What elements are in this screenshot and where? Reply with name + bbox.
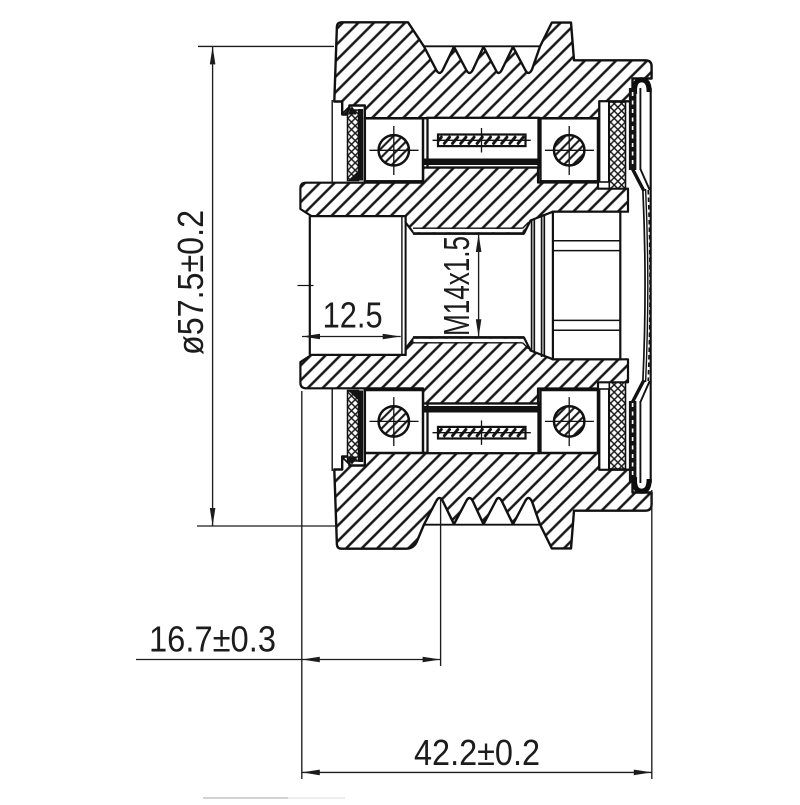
svg-text:16.7±0.3: 16.7±0.3 <box>149 619 276 660</box>
thread chamfer slant top-right <box>523 222 529 228</box>
svg-text:12.5: 12.5 <box>323 295 383 336</box>
svg-text:42.2±0.2: 42.2±0.2 <box>414 732 540 773</box>
pulley OD silhouette line across top grooves <box>423 45 541 47</box>
pulley left face edge line upper <box>331 100 333 184</box>
centre tick on hub left face <box>298 285 314 287</box>
watermark remnant line <box>203 797 288 799</box>
dust cap face <box>643 188 645 383</box>
hub lower section <box>300 338 628 404</box>
lower-left seal <box>343 391 363 465</box>
lower-right spacer ring <box>600 389 609 470</box>
lower sprag horizontal centerline <box>433 432 531 434</box>
hub upper section <box>300 168 628 234</box>
bearing ball upper-left <box>379 135 409 165</box>
pulley left face edge line lower <box>331 388 333 472</box>
hub nose end <box>553 212 620 360</box>
lower sprag vertical centerline <box>481 420 483 445</box>
upper-left seal <box>343 106 363 180</box>
pulley body upper section <box>334 22 651 118</box>
dust cap bottom curl <box>634 477 649 491</box>
dimension 16.7±0.3 <box>136 391 441 779</box>
counterbore step face second line <box>401 216 403 356</box>
retainer ring line 2 <box>533 219 535 352</box>
pulley OD silhouette line across bottom grooves <box>423 524 541 526</box>
upper clutch inner race band <box>423 159 540 166</box>
upper-right spacer ring <box>600 102 609 183</box>
dimension M14x1.5 <box>478 234 480 337</box>
lower sprag bar <box>438 427 526 439</box>
svg-text:ø57.5±0.2: ø57.5±0.2 <box>170 210 211 355</box>
thread relief band bottom <box>414 339 523 342</box>
nose chamfer line 2 <box>553 250 620 252</box>
bearing ball square lower-right <box>540 390 598 453</box>
upper sprag horizontal centerline <box>433 139 531 141</box>
dust cap top crimp <box>629 88 637 170</box>
lower clutch inner race band <box>423 406 540 413</box>
nose chamfer line 1 <box>553 240 620 242</box>
dimension ø57.5±0.2 <box>197 46 336 526</box>
bearing ball upper-right <box>554 135 584 165</box>
dimension 42.2±0.2 <box>302 490 652 779</box>
thread minor diameter line bottom <box>413 336 524 339</box>
bearing ball square upper-right <box>540 118 598 181</box>
thread major diameter line bottom <box>413 342 523 344</box>
thread relief band top <box>414 229 523 232</box>
lower-right seal <box>609 383 625 470</box>
thread minor diameter line top <box>413 232 524 235</box>
bearing ball lower-left <box>379 406 409 436</box>
dimension 12.5 <box>302 336 401 338</box>
upper sprag vertical centerline <box>481 128 483 153</box>
dust cap top cone <box>633 169 645 191</box>
svg-text:M14x1.5: M14x1.5 <box>436 236 477 336</box>
dust cap bottom crimp <box>629 401 637 483</box>
lower sprag clutch cavity <box>428 404 539 454</box>
thread major diameter line top <box>413 227 523 229</box>
dust cap bottom cone <box>633 380 645 402</box>
thread chamfer slant bottom-right <box>523 343 529 349</box>
nose chamfer line 4 <box>553 329 620 331</box>
upper-right seal <box>609 102 625 189</box>
dust cap outer silhouette <box>650 88 652 483</box>
bearing ball square lower-left <box>365 390 423 453</box>
upper sprag bar <box>438 135 526 147</box>
hub bore chamfer edge line at left face <box>309 216 311 355</box>
nose chamfer line 3 <box>553 319 620 321</box>
retainer ring line 4 <box>543 214 545 357</box>
upper sprag clutch cavity <box>428 118 539 168</box>
retainer ring line 3 <box>541 214 543 357</box>
retainer ring line 1 <box>531 219 533 352</box>
counterbore step face line <box>405 215 407 356</box>
bearing ball lower-right <box>554 406 584 436</box>
bearing ball square upper-left <box>365 118 423 181</box>
pulley body lower section <box>334 453 651 549</box>
dust cap top curl <box>634 80 649 94</box>
